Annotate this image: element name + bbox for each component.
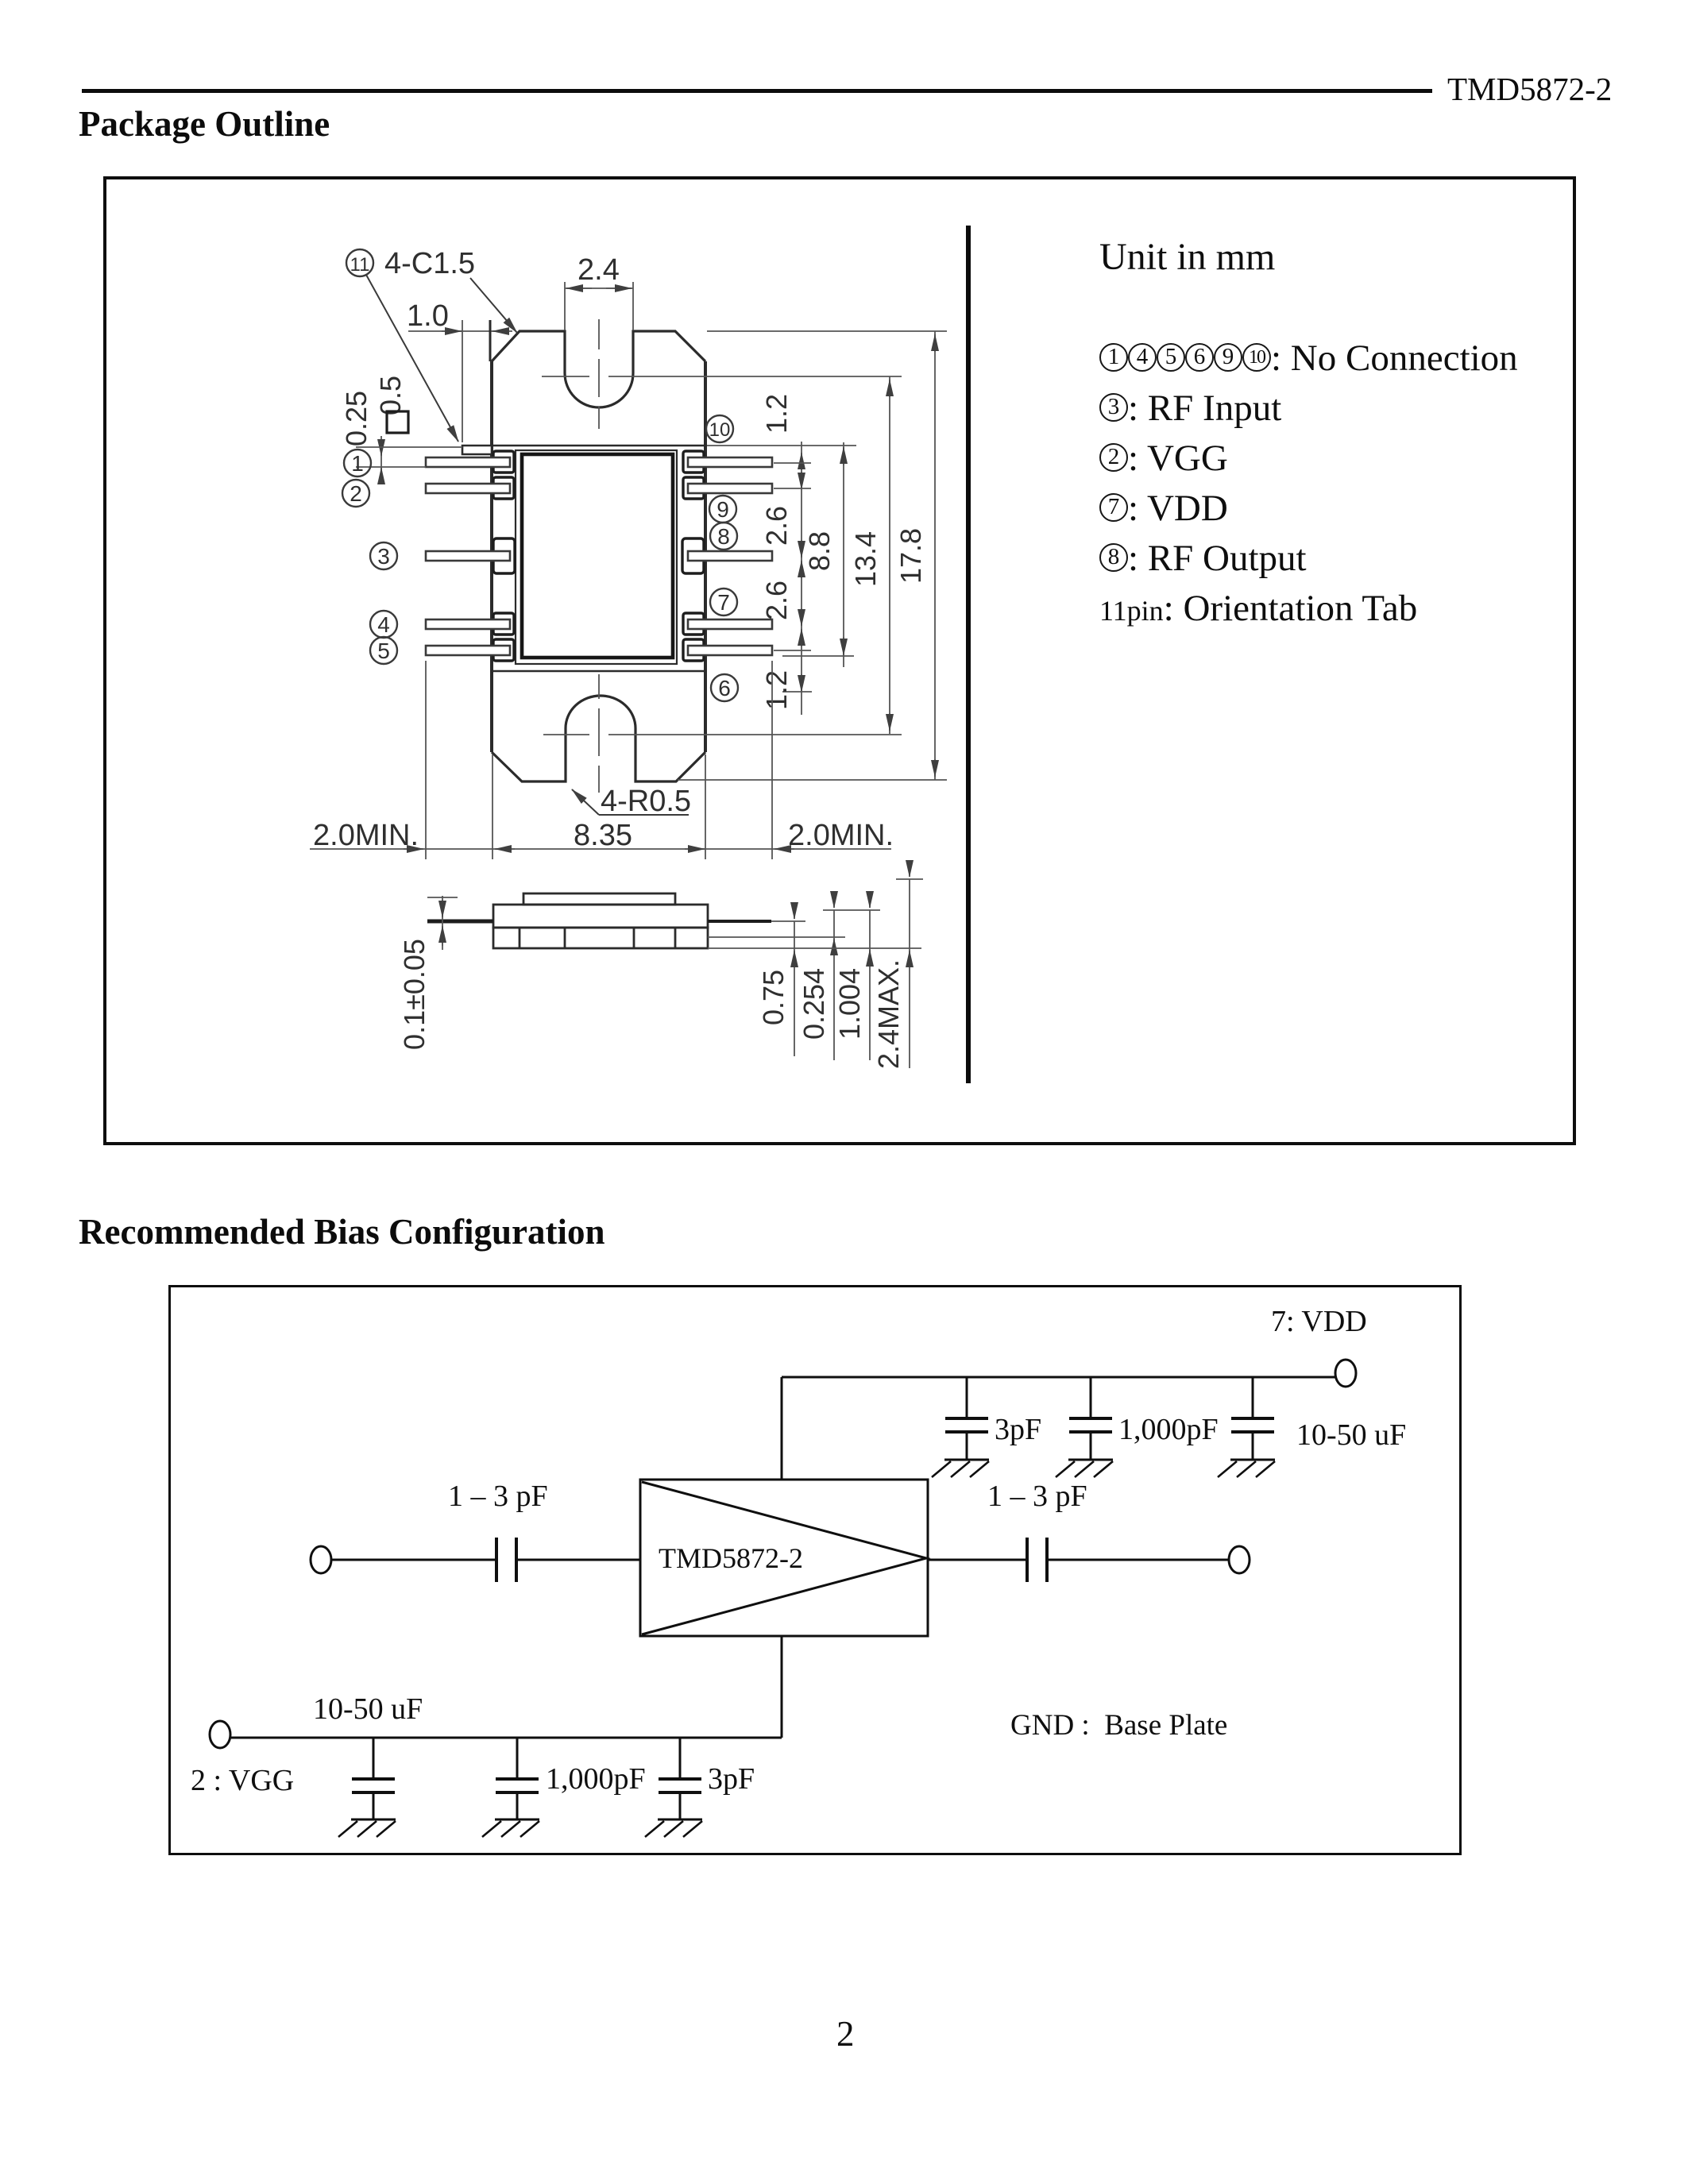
page number	[836, 2013, 855, 2055]
header part number TMD5872-2	[1447, 70, 1612, 108]
side view base with socket dividers	[493, 928, 708, 948]
circled pin number 6	[711, 674, 738, 701]
wire VGG rail	[230, 1737, 782, 1739]
wire amp to C5	[928, 1559, 1027, 1561]
ground for C2	[1056, 1460, 1113, 1477]
svg-text:0.1±0.05: 0.1±0.05	[398, 939, 431, 1050]
package bottom flange with notch	[492, 696, 705, 781]
node VDD terminal	[1335, 1360, 1356, 1387]
svg-text:0.25: 0.25	[340, 391, 373, 446]
center line bottom notch	[543, 674, 902, 793]
circled pin number 5	[370, 637, 397, 664]
capacitor C2 1,000pF	[1069, 1377, 1112, 1460]
svg-text:8.35: 8.35	[574, 819, 632, 852]
side view left pin	[427, 920, 493, 924]
socket pin 10	[683, 451, 704, 473]
circled pin number 11	[346, 249, 373, 276]
dim 8.8	[782, 442, 854, 667]
svg-text:1.2: 1.2	[760, 670, 793, 710]
package right edge	[704, 361, 707, 752]
outline figure frame	[103, 176, 1576, 1145]
lead pin 3	[426, 551, 510, 561]
capacitor C5 1-3pF output	[1027, 1538, 1047, 1582]
ground for C7	[482, 1819, 539, 1837]
svg-text:2.6: 2.6	[760, 506, 793, 546]
svg-text:1,000pF: 1,000pF	[546, 1762, 646, 1796]
socket pin 1	[493, 451, 514, 473]
svg-text:GND : Base Plate: GND : Base Plate	[1010, 1709, 1227, 1742]
right panel: Unit in mm	[1099, 235, 1275, 279]
lead pin 10	[688, 457, 772, 467]
pin sockets right	[682, 451, 704, 661]
circled pin number 3	[370, 542, 397, 569]
svg-text:1 – 3 pF: 1 – 3 pF	[448, 1480, 548, 1513]
svg-text:8.8: 8.8	[803, 531, 836, 571]
lead pin 1	[426, 457, 510, 467]
dim 1.0	[408, 320, 512, 442]
socket pin 7	[683, 613, 704, 635]
pin sockets left	[493, 451, 515, 661]
socket pin 3	[493, 538, 515, 573]
svg-text:5: 5	[377, 639, 390, 663]
svg-text:TMD5872-2: TMD5872-2	[659, 1542, 803, 1574]
svg-text:2.6: 2.6	[760, 581, 793, 620]
lead pin 9	[688, 484, 772, 493]
lead pin 2	[426, 484, 510, 493]
svg-text:1 – 3 pF: 1 – 3 pF	[987, 1480, 1087, 1513]
svg-text:2 : VGG: 2 : VGG	[191, 1764, 294, 1797]
heading Recommended Bias Configuration	[79, 1211, 605, 1252]
lead pin 8	[688, 551, 772, 561]
svg-text:1,000pF: 1,000pF	[1118, 1413, 1219, 1446]
svg-text:13.4: 13.4	[849, 531, 882, 587]
socket pin 5	[493, 639, 514, 661]
capacitor C7 1,000pF	[496, 1738, 539, 1819]
svg-text:0.75: 0.75	[757, 970, 790, 1025]
circled pin number 8	[710, 523, 737, 550]
capacitor C4 1-3pF input	[496, 1538, 516, 1582]
dim 0.1±0.05	[427, 896, 458, 950]
capacitor C1 3pF	[945, 1377, 988, 1460]
node RF output terminal	[1229, 1546, 1250, 1573]
node VGG terminal	[210, 1721, 230, 1748]
socket pin 2	[493, 477, 514, 499]
svg-text:2.0MIN.: 2.0MIN.	[313, 819, 419, 852]
svg-text:4-C1.5: 4-C1.5	[384, 247, 475, 280]
cavity outer wall	[516, 450, 677, 664]
package left edge	[490, 361, 493, 752]
capacitor C8 3pF	[659, 1738, 701, 1819]
side view lid	[523, 893, 675, 905]
svg-text:10: 10	[709, 419, 731, 441]
svg-text:10-50 uF: 10-50 uF	[313, 1692, 423, 1726]
wire C4 to amp	[516, 1559, 640, 1561]
svg-text:17.8: 17.8	[894, 528, 927, 584]
tab extension line	[394, 446, 462, 448]
circled pin number 7	[710, 588, 737, 615]
svg-text:1: 1	[351, 451, 364, 476]
wire amp bottom drop	[781, 1636, 783, 1738]
lead pin 5	[426, 646, 510, 655]
svg-text:7: 7	[717, 590, 730, 615]
svg-text:4: 4	[377, 612, 390, 637]
flange-body junction top	[492, 445, 705, 447]
center line top notch	[542, 319, 902, 429]
dim lines 0.25 / 0.5	[356, 436, 426, 479]
svg-text:11: 11	[350, 254, 370, 276]
svg-text:2.0MIN.: 2.0MIN.	[788, 819, 894, 852]
square symbol for 0.5	[387, 411, 408, 433]
svg-text:8: 8	[717, 524, 730, 549]
circled pin number 10	[706, 415, 733, 442]
orientation tab pin 11	[462, 446, 492, 454]
circled pin number 1	[344, 450, 371, 477]
svg-text:3: 3	[377, 544, 390, 569]
package body outline top flange	[492, 331, 705, 407]
lead pin 7	[688, 619, 772, 629]
side view right pin	[708, 920, 771, 923]
side view body	[493, 905, 708, 928]
op-amp U1 TMD5872-2	[640, 1480, 928, 1636]
socket pin 8	[682, 538, 704, 573]
right panel pin legend	[1099, 334, 1518, 636]
leader from 11 to tab	[366, 275, 458, 442]
dim 2.4	[565, 282, 633, 330]
svg-text:0.5: 0.5	[374, 376, 407, 415]
cavity inner wall	[522, 454, 673, 658]
circled pin number 2	[342, 480, 369, 507]
dim stack 1.2/2.6/2.6/1.2	[707, 442, 856, 715]
socket pin 6	[683, 639, 704, 661]
svg-text:4-R0.5: 4-R0.5	[601, 785, 691, 818]
flange-body junction bottom	[492, 670, 705, 673]
ground for C1	[932, 1460, 989, 1477]
svg-text:2: 2	[350, 481, 362, 506]
wire C5 to output terminal	[1047, 1559, 1229, 1561]
node RF input terminal	[311, 1546, 331, 1573]
svg-text:1.2: 1.2	[760, 394, 793, 434]
right side-view dims	[708, 865, 923, 1068]
circled pin number 9	[709, 496, 736, 523]
capacitor C6 10-50 uF	[352, 1738, 395, 1819]
ground for C8	[645, 1819, 702, 1837]
pin leads right	[688, 457, 772, 655]
wire input to C4	[331, 1559, 496, 1561]
bottom dim row 2.0MIN / 8.35 / 2.0MIN	[310, 661, 891, 859]
socket pin 4	[493, 613, 514, 635]
pin leads left	[426, 457, 510, 655]
svg-text:10-50 uF: 10-50 uF	[1296, 1418, 1406, 1452]
svg-text:3pF: 3pF	[995, 1413, 1041, 1446]
svg-text:1.0: 1.0	[407, 299, 449, 333]
schematic frame	[168, 1285, 1462, 1855]
socket pin 9	[683, 477, 704, 499]
package drawing SVG placeholder	[106, 179, 1570, 1139]
capacitor C3 10-50 uF	[1231, 1377, 1274, 1460]
heading Package Outline	[79, 103, 330, 145]
dim 13.4	[889, 376, 890, 734]
schematic SVG placeholder	[172, 1288, 1457, 1850]
svg-text:2.4: 2.4	[577, 253, 620, 287]
lead pin 4	[426, 619, 510, 629]
dim 17.8	[678, 331, 947, 780]
ground for C6	[338, 1819, 396, 1837]
svg-text:1.004: 1.004	[833, 968, 866, 1040]
wire VDD rail	[782, 1376, 1335, 1379]
svg-text:6: 6	[718, 676, 731, 700]
svg-text:0.254: 0.254	[798, 968, 830, 1040]
ground for C3	[1218, 1460, 1275, 1477]
circled pin number 4	[370, 611, 397, 638]
wire VDD drop to amp	[781, 1377, 783, 1480]
leader from 4-C1.5 to chamfer	[470, 278, 517, 333]
lead pin 6	[688, 646, 772, 655]
top rule	[82, 89, 1432, 93]
svg-text:2.4MAX.: 2.4MAX.	[872, 959, 905, 1069]
vertical divider in figure	[966, 226, 971, 1083]
svg-text:9: 9	[717, 497, 729, 522]
svg-text:7: VDD: 7: VDD	[1271, 1305, 1367, 1338]
svg-text:3pF: 3pF	[708, 1762, 755, 1796]
